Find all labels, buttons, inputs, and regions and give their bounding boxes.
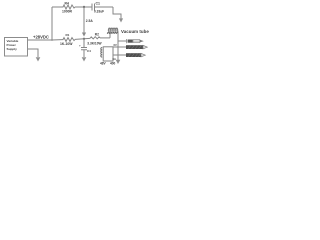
- svg-text:6V: 6V: [114, 43, 117, 47]
- inductor L1 riser: [109, 31, 111, 38]
- arrowhead current: [82, 33, 86, 37]
- wire plug1: [118, 40, 127, 42]
- wire supply output to node: [28, 39, 52, 41]
- wire resistor R1 to node: [75, 38, 90, 39]
- arrowhead right ground: [116, 60, 121, 64]
- wire vertical left riser: [51, 7, 53, 40]
- resistor R2: [90, 37, 100, 39]
- node junction top: [83, 6, 85, 8]
- inductor core hatch: [107, 32, 118, 34]
- wire plug3: [113, 54, 126, 56]
- svg-text:C4: C4: [87, 49, 91, 53]
- wire main bus: [52, 39, 62, 41]
- resistor R1: [62, 38, 75, 42]
- wire hook arrow: [113, 7, 121, 19]
- node junction left: [51, 39, 53, 41]
- node junction main: [83, 38, 85, 40]
- svg-text:+28VDC: +28VDC: [33, 34, 49, 39]
- svg-text:C1: C1: [96, 1, 101, 5]
- wire supply ground: [28, 49, 38, 57]
- svg-text:+: +: [79, 43, 81, 47]
- svg-text:1000R: 1000R: [62, 9, 73, 13]
- svg-text:2.5A: 2.5A: [86, 19, 94, 23]
- transformer primary winding: [101, 48, 102, 58]
- wire resistor R2 to inductor: [100, 37, 110, 39]
- svg-text:3.3K/10W: 3.3K/10W: [87, 42, 101, 46]
- svg-text:400: 400: [110, 62, 116, 66]
- plug P2: [126, 45, 147, 49]
- plug P1: [127, 39, 144, 43]
- power supply box: [5, 38, 28, 57]
- svg-text:Supply: Supply: [7, 47, 18, 51]
- arrowhead supply ground: [36, 57, 41, 61]
- svg-text:0.33uF: 0.33uF: [94, 9, 104, 13]
- plug P3: [126, 53, 145, 57]
- svg-text:R2: R2: [95, 33, 99, 37]
- capacitor C4 to ground: [83, 39, 85, 47]
- resistor R4: [62, 5, 75, 9]
- svg-text:48V: 48V: [100, 62, 107, 66]
- wire right vertical: [117, 31, 119, 60]
- wire current arrow: [83, 7, 85, 33]
- wire capacitor to corner: [95, 6, 114, 8]
- svg-text:Vacuum tube: Vacuum tube: [121, 29, 149, 34]
- arrowhead hook: [119, 18, 123, 22]
- svg-text:6A: 6A: [113, 57, 116, 61]
- arrowhead C4 ground: [82, 57, 87, 61]
- wire plug2: [113, 46, 126, 48]
- capacitor C1: [92, 4, 95, 11]
- svg-text:1K-10W: 1K-10W: [60, 42, 73, 46]
- wire resistor R4 to capacitor: [75, 6, 92, 8]
- wire top bus: [52, 6, 62, 8]
- svg-text:R1: R1: [66, 33, 70, 37]
- inductor L1 coil: [108, 28, 117, 31]
- svg-text:R4: R4: [65, 2, 69, 6]
- transformer T1 box: [101, 47, 126, 61]
